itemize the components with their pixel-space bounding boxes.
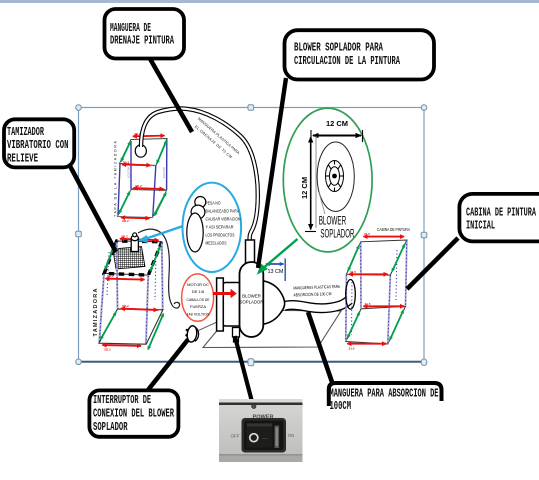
svg-text:MEZCLADOS: MEZCLADOS [206, 241, 227, 246]
pointer line: cabina callout [407, 238, 458, 289]
callout: INTERRUPTOR DE CONEXION [89, 390, 178, 436]
svg-text:3O.2: 3O.2 [122, 304, 129, 308]
svg-text:1O.2 CM: 1O.2 CM [126, 168, 130, 178]
green oblique arrows [101, 245, 164, 350]
svg-text:CIRCULACION DE LA PINTURA: CIRCULACION DE LA PINTURA [294, 54, 400, 68]
pointer line: tamizador callout [70, 166, 116, 252]
callout: MANGUERA DE DRENAJE PINTURA [105, 9, 185, 59]
callout: BLOWER SOPLADOR PARA CIRCULACION [285, 30, 435, 79]
tapa vertical edges (blue) [118, 140, 167, 217]
pointer line: to switch photo [235, 336, 254, 408]
svg-text:3O.2: 3O.2 [104, 348, 111, 352]
switch photo panel [219, 399, 303, 462]
svg-text:12 CM: 12 CM [326, 119, 348, 128]
horn [263, 281, 285, 325]
svg-text:3O.2: 3O.2 [107, 274, 114, 278]
green leader arrow to blower [261, 239, 298, 270]
svg-text:CAUSAR VIBRACION: CAUSAR VIBRACION [206, 217, 241, 222]
svg-text:FUERZA: FUERZA [190, 304, 206, 309]
svg-text:DE 1/8: DE 1/8 [192, 289, 205, 294]
motor dc red ellipse [182, 274, 214, 321]
svg-text:SOPLADOR: SOPLADOR [320, 227, 354, 241]
svg-text:TAMIZADOR: TAMIZADOR [7, 125, 44, 139]
floor parallelogram under blower [203, 310, 341, 348]
motor body [223, 283, 240, 327]
svg-text:31.5: 31.5 [364, 232, 370, 236]
svg-text:BLOWER: BLOWER [242, 294, 261, 299]
vibrator motor cylinder on mesh [131, 238, 138, 252]
dimension 12 CM horizontal [313, 135, 361, 137]
svg-text:OFF: OFF [231, 433, 240, 438]
svg-text:3O.2: 3O.2 [135, 184, 142, 188]
blower top inlet tube [246, 240, 255, 264]
dimension 12 CM vertical [310, 137, 312, 230]
svg-text:BLOWER SOPLADOR PARA: BLOWER SOPLADOR PARA [294, 41, 383, 55]
cyan ellipse: pesa no balanceado [138, 183, 241, 272]
svg-text:3O.2: 3O.2 [121, 234, 128, 238]
tapa hose hole [135, 145, 146, 157]
svg-text:SOPLADOR: SOPLADOR [240, 300, 264, 305]
top face rim [104, 241, 162, 275]
svg-text:SOPLADOR: SOPLADOR [93, 420, 128, 434]
cyan leader arrow to vibrator [145, 226, 183, 239]
tamizadora vibrating box [93, 233, 164, 352]
svg-text:1O.2 CM: 1O.2 CM [162, 168, 166, 178]
svg-text:INICIAL: INICIAL [466, 219, 495, 233]
callout: TAMIZADOR VIBRATORIO CON RELIEVE [4, 119, 74, 167]
svg-text:BALANCEADO PARA: BALANCEADO PARA [206, 209, 240, 214]
mesh screen [113, 247, 145, 270]
tapa red dimension arrows [121, 136, 165, 219]
svg-text:TAMIZADORA: TAMIZADORA [93, 288, 99, 336]
pointer line: manguera drenaje [149, 57, 192, 132]
svg-text:INTERRUPTOR DE: INTERRUPTOR DE [93, 393, 151, 407]
svg-text:CABALLOS DE: CABALLOS DE [187, 297, 210, 302]
selection rectangle [79, 108, 425, 362]
selection handles [76, 105, 427, 366]
red dimension arrows [102, 239, 158, 346]
rocker switch [242, 418, 287, 453]
svg-text:DRENAJE PINTURA: DRENAJE PINTURA [110, 34, 174, 48]
svg-text:31.5: 31.5 [350, 270, 356, 274]
green detail ellipse: blower face [257, 108, 372, 275]
svg-text:13 CM: 13 CM [268, 269, 284, 275]
selection bottom edge dark [79, 361, 425, 363]
base parallelogram [99, 309, 163, 344]
svg-text:100CM: 100CM [330, 399, 352, 413]
svg-text:Y ASI SEPARAR: Y ASI SEPARAR [206, 225, 234, 230]
interruptor symbol [185, 322, 216, 342]
svg-text:CABINA DE PINTURA: CABINA DE PINTURA [466, 206, 536, 220]
svg-text:PESA NO: PESA NO [206, 201, 222, 206]
blower capsule [240, 262, 264, 337]
flange plate [217, 278, 224, 331]
tapa de la tamizadora box (upper-left wireframe) [113, 132, 167, 223]
pointer line: interruptor callout [148, 340, 188, 391]
pointer line: manguera absorcion callout [308, 312, 333, 385]
pointer line: blower soplador callout [258, 78, 286, 268]
hose hole on cabina [346, 280, 356, 310]
13 CM blue dimension [266, 263, 284, 265]
top ruler bar [0, 0, 539, 3]
callout: MANGUERA PARA ABSORCION [329, 383, 442, 413]
svg-text:3O.2: 3O.2 [122, 219, 129, 223]
legs [99, 242, 162, 344]
svg-text:VIBRATORIO CON: VIBRATORIO CON [7, 138, 69, 152]
svg-text:TAPA DE LA TAMIZADORA: TAPA DE LA TAMIZADORA [113, 140, 117, 217]
tapa green oblique edges [119, 141, 167, 216]
absorption hose to cabina [285, 300, 350, 308]
svg-text:31.5: 31.5 [365, 302, 371, 306]
svg-text:148 VOLTIOS: 148 VOLTIOS [187, 312, 210, 317]
manguera de drenaje (hose from tapa to blower) [141, 108, 258, 240]
svg-text:MOTOR DC: MOTOR DC [187, 282, 209, 287]
svg-text:CABINA DE PINTURA: CABINA DE PINTURA [377, 227, 410, 232]
svg-text:BLOWER: BLOWER [319, 214, 347, 228]
svg-text:ON: ON [288, 433, 295, 438]
wire from vibrator motor to pigtail [138, 229, 180, 308]
screw hole [252, 404, 256, 408]
svg-text:LOS PRODUCTOS: LOS PRODUCTOS [206, 233, 235, 238]
svg-text:RELIEVE: RELIEVE [7, 151, 38, 165]
bottom outlet [233, 328, 240, 338]
svg-text:3O.2: 3O.2 [123, 160, 130, 164]
svg-text:CONEXION DEL BLOWER: CONEXION DEL BLOWER [93, 407, 174, 421]
red arrow motor to blower [213, 292, 231, 295]
blower assembly [213, 240, 350, 342]
svg-text:31.5: 31.5 [349, 346, 355, 350]
drawing: tamizadora lower box group [203, 310, 341, 348]
callout: CABINA DE PINTURA INICIAL [459, 194, 539, 242]
cabina de pintura box [346, 227, 410, 350]
svg-text:12 CM: 12 CM [300, 177, 309, 199]
